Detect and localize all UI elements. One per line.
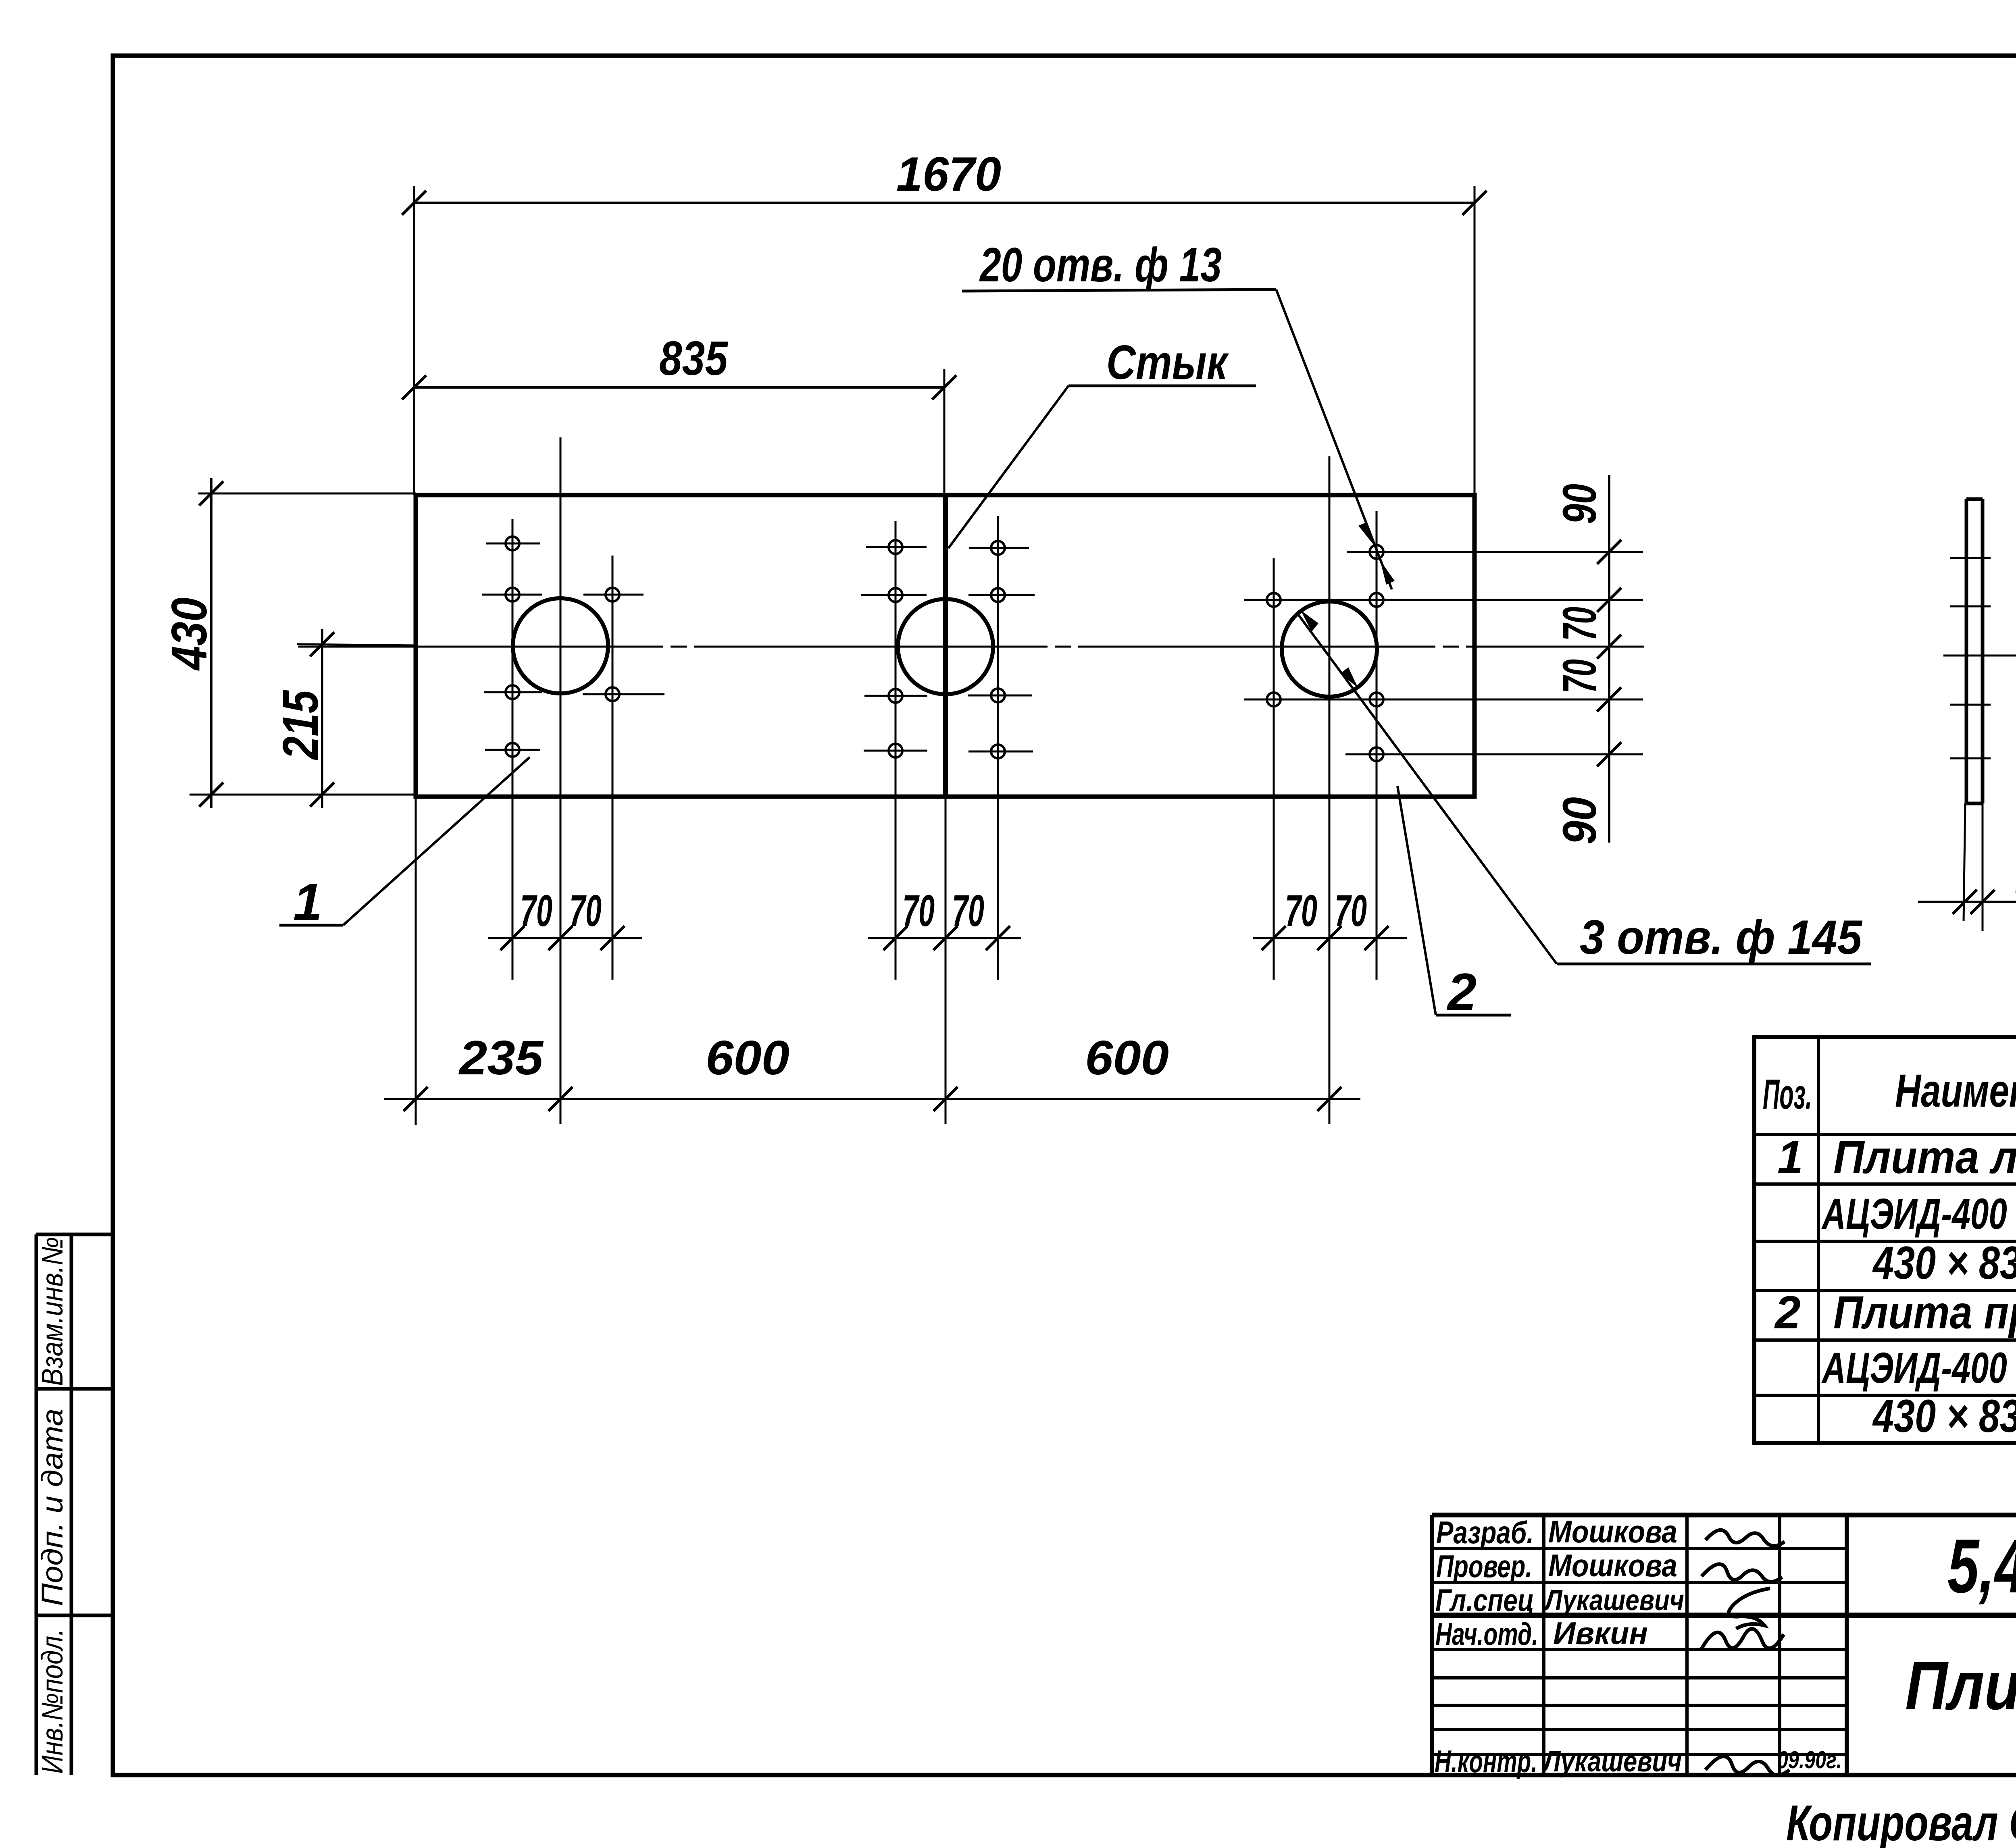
small hole c3-R1 — [1370, 545, 1383, 559]
parts table grid — [1754, 1037, 2016, 1443]
dim 215 — [297, 629, 416, 808]
side view centerline — [1943, 655, 2016, 657]
small hole c2-L3 — [864, 689, 927, 703]
dim 235-600-600 line — [384, 797, 1360, 1125]
label Styk — [948, 335, 1256, 548]
signature row1 — [1706, 1530, 1785, 1546]
svg-text:Поз.: Поз. — [1763, 1071, 1812, 1118]
row line E to dimension chain — [1345, 753, 1643, 755]
cluster1 middle centerline — [560, 437, 562, 1124]
cluster3 right column centerline — [1376, 511, 1378, 980]
horizontal centerline — [298, 646, 1644, 648]
position label 2 — [1397, 786, 1511, 1021]
small hole c2-R1 — [969, 541, 1029, 555]
svg-text:215: 215 — [273, 689, 329, 760]
side view dim 20 — [1918, 803, 2016, 931]
plate outline (plan view) — [416, 495, 1475, 797]
dim 430 — [190, 478, 416, 808]
svg-text:2: 2 — [1446, 962, 1477, 1021]
dim 70-70 pair 2 — [868, 886, 1021, 950]
dim 70-70 pair 3 — [1253, 886, 1407, 950]
svg-text:1: 1 — [293, 872, 322, 931]
svg-text:90: 90 — [1553, 797, 1606, 845]
signature row3 — [1729, 1588, 1770, 1629]
svg-text:Н.контр.: Н.контр. — [1435, 1744, 1537, 1779]
row line B to dimension chain — [1244, 599, 1643, 601]
small hole c2-R4 — [968, 745, 1033, 758]
title block grid — [1432, 1515, 2016, 1775]
svg-text:5,407 - 126. 1-30: 5,407 - 126. 1-30 — [1947, 1523, 2016, 1609]
svg-text:Гл.спец: Гл.спец — [1435, 1582, 1534, 1618]
position label 1 — [279, 757, 530, 931]
row line A to dimension chain — [1347, 551, 1643, 553]
svg-text:430 × 835 × 20: 430 × 835 × 20 — [1872, 1237, 2016, 1289]
small hole c2-R3 — [968, 689, 1032, 702]
cluster3 middle centerline — [1329, 456, 1331, 1124]
svg-text:3 отв. ф 145: 3 отв. ф 145 — [1580, 910, 1863, 964]
svg-text:70: 70 — [1285, 886, 1317, 936]
big hole O145 no.3 — [1282, 601, 1377, 697]
small hole c3-L2 — [1267, 593, 1281, 607]
svg-text:Стык: Стык — [1106, 335, 1229, 389]
label 20 otv. d13 — [962, 238, 1395, 589]
small hole c3-R4 — [1370, 747, 1383, 761]
svg-text:Ивкин: Ивкин — [1553, 1615, 1648, 1651]
small hole c2-R2 — [968, 588, 1035, 602]
small hole c2-L2 — [861, 588, 927, 602]
svg-text:70: 70 — [569, 886, 602, 936]
svg-text:1670: 1670 — [896, 147, 1001, 201]
svg-text:1: 1 — [1777, 1132, 1803, 1183]
right dimension chain line — [1597, 475, 1621, 843]
small hole c1-L4 — [485, 743, 540, 757]
svg-text:90: 90 — [1553, 484, 1606, 524]
dim 835 line — [402, 375, 956, 400]
svg-text:Лукашевич: Лукашевич — [1542, 1746, 1682, 1778]
svg-text:600: 600 — [706, 1031, 789, 1085]
svg-text:70: 70 — [902, 886, 935, 936]
svg-text:Разраб.: Разраб. — [1436, 1515, 1534, 1550]
svg-text:835: 835 — [659, 331, 729, 385]
small hole c2-L4 — [864, 744, 927, 758]
svg-text:430 × 835 × 20: 430 × 835 × 20 — [1872, 1390, 2016, 1442]
svg-text:Инв.№подл.: Инв.№подл. — [35, 1629, 69, 1774]
svg-text:АЦЭИД-400 ГОСТ4248-78: АЦЭИД-400 ГОСТ4248-78 — [1821, 1189, 2016, 1238]
svg-text:70: 70 — [1553, 607, 1606, 641]
small hole c3-L3 — [1267, 693, 1281, 706]
svg-text:Копировал Сергеева: Копировал Сергеева — [1786, 1795, 2016, 1848]
svg-text:Наименование: Наименование — [1895, 1065, 2016, 1117]
svg-text:Нач.отд.: Нач.отд. — [1435, 1616, 1538, 1652]
small hole c1-L3 — [484, 685, 542, 699]
small hole c3-R2 — [1370, 593, 1383, 607]
svg-text:Провер.: Провер. — [1436, 1548, 1532, 1584]
cluster3 left column centerline — [1273, 558, 1275, 980]
small hole c2-L1 — [866, 540, 927, 554]
dim 1670 line — [402, 186, 1487, 495]
cluster1 left column centerline — [512, 519, 514, 980]
svg-text:Лукашевич: Лукашевич — [1543, 1584, 1684, 1617]
svg-text:09.90г.: 09.90г. — [1777, 1746, 1842, 1773]
signature row5 — [1706, 1756, 1789, 1775]
side view plate outline — [1966, 499, 1983, 803]
cluster2 middle extension below — [945, 797, 947, 1124]
svg-text:Плита левая: Плита левая — [1833, 1132, 2016, 1183]
small hole c1-R2 — [583, 588, 644, 601]
small hole c3-R3 — [1370, 693, 1383, 706]
side view hole mark row E — [1950, 758, 1991, 760]
big hole O145 no.2 — [898, 599, 993, 694]
svg-text:70: 70 — [1553, 659, 1606, 693]
svg-text:Плита правая: Плита правая — [1833, 1287, 2016, 1338]
cluster2 right column centerline — [997, 516, 999, 980]
side view hole mark row D — [1950, 704, 1991, 706]
cluster2 left column centerline — [895, 521, 897, 980]
svg-text:Подп. и дата: Подп. и дата — [35, 1409, 69, 1606]
signature row4 — [1702, 1629, 1784, 1649]
svg-text:600: 600 — [1085, 1031, 1169, 1085]
svg-text:2: 2 — [1774, 1287, 1801, 1338]
svg-text:Взам.инв.№: Взам.инв.№ — [35, 1237, 69, 1386]
side view hole mark row A — [1950, 557, 1991, 559]
label 3 otv. d145 with diameter arrow — [1297, 610, 1871, 964]
svg-text:АЦЭИД-400 ГОСТ4248-78: АЦЭИД-400 ГОСТ4248-78 — [1821, 1343, 2016, 1392]
big hole O145 no.1 — [513, 598, 608, 693]
small hole c1-R3 — [583, 687, 664, 701]
small hole c1-L2 — [482, 588, 542, 601]
row line D to dimension chain — [1244, 699, 1643, 701]
svg-text:Мошкова: Мошкова — [1548, 1548, 1677, 1583]
left stamp column boxes — [36, 1234, 113, 1775]
svg-text:70: 70 — [1335, 886, 1367, 936]
svg-text:70: 70 — [520, 886, 552, 936]
svg-text:Плита П5: Плита П5 — [1905, 1648, 2016, 1724]
svg-text:235: 235 — [458, 1031, 544, 1085]
svg-text:430: 430 — [162, 597, 217, 671]
side view hole mark row B — [1950, 606, 1991, 608]
joint line (Styk) between left and right plates — [943, 495, 948, 797]
signature row2 — [1702, 1564, 1782, 1582]
svg-text:20 отв. ф 13: 20 отв. ф 13 — [979, 238, 1222, 292]
small hole c1-L1 — [486, 537, 540, 550]
cluster1 right column centerline — [612, 556, 614, 980]
dim 70-70 pair 1 — [488, 886, 642, 950]
svg-text:70: 70 — [952, 886, 984, 936]
cluster2 middle extension above — [943, 369, 946, 495]
svg-text:Мошкова: Мошкова — [1548, 1514, 1677, 1549]
